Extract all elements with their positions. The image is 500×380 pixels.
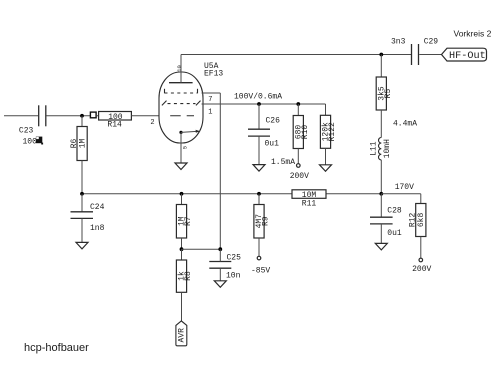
wire C29 to HF-Out [419, 54, 441, 56]
capacitor C23 [39, 105, 46, 126]
svg-text:R122: R122 [328, 122, 337, 141]
node R7 bottom junction dot [180, 247, 184, 251]
terminal 200V under R10 [297, 164, 301, 168]
svg-text:10n: 10n [226, 272, 241, 281]
svg-text:100: 100 [23, 137, 38, 146]
svg-text:C23: C23 [19, 126, 34, 135]
resistor R8 [181, 249, 183, 260]
terminal 200V under R12 [419, 258, 423, 262]
svg-text:C26: C26 [266, 117, 281, 126]
ground under C26 [253, 165, 265, 172]
resistor R12 [416, 204, 426, 237]
cathode junction dot [179, 131, 182, 134]
grid g2 screen row with end ticks [165, 89, 198, 94]
svg-text:4.4mA: 4.4mA [393, 120, 417, 129]
node 170V junction dot [379, 192, 383, 196]
svg-text:1: 1 [208, 108, 212, 116]
tube U5A labels [204, 62, 223, 79]
svg-text:R5: R5 [384, 89, 393, 99]
wire lower bus [82, 193, 292, 195]
svg-text:170V: 170V [395, 183, 414, 192]
svg-text:Vorkreis 2: Vorkreis 2 [454, 29, 492, 39]
op-amp? no: vacuum tube U5A envelope [159, 72, 203, 143]
svg-text:5: 5 [182, 146, 189, 149]
svg-text:EF13: EF13 [204, 69, 223, 78]
svg-text:C24: C24 [90, 203, 105, 212]
resistor R14 [99, 112, 132, 121]
svg-text:C25: C25 [227, 254, 242, 263]
resistor R11 [292, 190, 326, 199]
node top junction dot [379, 53, 383, 57]
capacitor C25 [209, 262, 231, 269]
svg-text:2: 2 [150, 119, 154, 127]
svg-text:L11: L11 [369, 141, 378, 156]
wire node to R12 [381, 193, 421, 195]
ground under tube [175, 163, 187, 170]
grid g1 control row [170, 115, 194, 117]
svg-text:R9: R9 [262, 216, 271, 226]
svg-text:10mH: 10mH [383, 139, 392, 158]
cathode lead [180, 132, 182, 163]
svg-text:R11: R11 [302, 200, 317, 209]
svg-text:7: 7 [208, 96, 212, 104]
capacitor C26 [258, 104, 260, 129]
wire R14 to tube grid pin 2 [131, 115, 159, 117]
svg-text:10: 10 [176, 65, 183, 72]
inductor L11 [379, 138, 382, 160]
svg-text:0u1: 0u1 [387, 229, 402, 238]
svg-text:3n3: 3n3 [391, 38, 406, 47]
svg-text:R7: R7 [184, 216, 193, 226]
terminal -85V under R9 [257, 256, 261, 260]
svg-text:1.5mA: 1.5mA [271, 158, 295, 167]
capacitor C28 [380, 194, 382, 217]
wire L11 to node 170V [380, 160, 382, 194]
svg-text:HF-Out: HF-Out [449, 51, 486, 62]
svg-text:R14: R14 [107, 120, 122, 129]
resistor R122 [320, 115, 330, 148]
svg-text:R8: R8 [184, 271, 193, 281]
resistor R10 [297, 104, 299, 116]
ground under C28 [375, 243, 387, 250]
anode lead [180, 55, 182, 83]
resistor R7 [181, 194, 183, 205]
wire square to R14 [96, 115, 98, 117]
node R7 top junction dot [180, 192, 184, 196]
junction square symbol [90, 112, 96, 118]
svg-text:200V: 200V [412, 265, 431, 274]
node R10 junction dot [296, 102, 300, 106]
node C26 junction dot [257, 102, 261, 106]
wire R5 to L11 [380, 110, 382, 138]
ground under R122 [320, 165, 332, 172]
anode plate [169, 82, 193, 84]
cathode to g3 internal link with arrow [181, 131, 199, 132]
ground under C24 [76, 242, 88, 249]
svg-text:1M: 1M [78, 139, 87, 149]
svg-text:200V: 200V [290, 172, 309, 181]
wire C23 to grid node [47, 115, 91, 117]
resistor R5 [380, 55, 382, 78]
wire R7 bottom to C25 [182, 248, 221, 250]
net flag HF-Out [442, 48, 487, 61]
svg-text:100V/0.6mA: 100V/0.6mA [234, 93, 282, 102]
wire input left segment [4, 115, 38, 117]
node bus left junction dot [80, 192, 84, 196]
node R9 top junction dot [257, 192, 261, 196]
node A junction dot [80, 114, 84, 118]
wire anode to top rail [181, 54, 411, 56]
svg-text:R12: R12 [408, 213, 417, 228]
label C23 value 100p [19, 126, 43, 146]
svg-text:6k8: 6k8 [417, 213, 426, 228]
wire g2 pin 7 [202, 92, 221, 94]
svg-text:C28: C28 [387, 206, 402, 215]
svg-text:AVR: AVR [177, 328, 186, 343]
svg-text:-85V: -85V [251, 266, 270, 275]
resistor R9 [258, 194, 260, 205]
net flag AVR [176, 321, 187, 346]
grid g3 suppressor row with slant ticks [162, 101, 201, 106]
capacitor C24 [81, 194, 83, 212]
svg-text:C29: C29 [424, 38, 439, 47]
resistor R6 [81, 116, 83, 127]
svg-text:1n8: 1n8 [90, 224, 105, 233]
ground under C25 [214, 281, 226, 288]
svg-text:hcp-hofbauer: hcp-hofbauer [24, 342, 89, 354]
wire anode pin 1 rail [202, 103, 326, 105]
svg-text:R10: R10 [301, 125, 310, 140]
node C25 junction dot [218, 247, 222, 251]
capacitor C29 [412, 44, 419, 65]
svg-text:0u1: 0u1 [265, 139, 280, 148]
